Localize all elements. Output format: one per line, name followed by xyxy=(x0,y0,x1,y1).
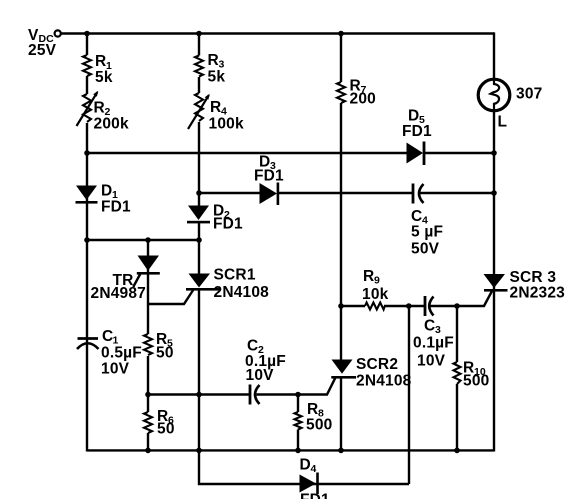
svg-text:500: 500 xyxy=(306,417,332,434)
svg-text:R: R xyxy=(95,53,106,70)
wire y240 link xyxy=(87,239,199,241)
svg-text:2N4108: 2N4108 xyxy=(214,284,270,301)
wire rail y193 left xyxy=(199,192,260,194)
resistor R3 xyxy=(195,56,203,77)
wire R10 branch top xyxy=(456,306,458,362)
wire R7 branch top xyxy=(340,34,342,83)
svg-text:10V: 10V xyxy=(246,367,275,384)
svg-text:100k: 100k xyxy=(209,116,244,133)
wire TR branch bottom xyxy=(147,433,149,450)
trigger diode TR 2N4987 xyxy=(138,256,160,271)
svg-text:FD1: FD1 xyxy=(213,216,243,233)
junction y394 x298 xyxy=(295,392,301,398)
svg-text:FD1: FD1 xyxy=(254,168,284,185)
svg-text:10V: 10V xyxy=(101,361,130,378)
wire TR cathode to SCR1 gate xyxy=(148,290,194,305)
capacitor C2 plates xyxy=(249,385,252,405)
wire left branch upper xyxy=(86,34,88,56)
svg-text:200k: 200k xyxy=(94,116,129,133)
wire left branch lower xyxy=(86,123,88,452)
capacitor C4 plates xyxy=(412,184,415,204)
wire TR branch lower xyxy=(147,356,149,412)
svg-text:R: R xyxy=(208,52,219,69)
wire top rail xyxy=(61,32,494,34)
terminal VDC xyxy=(55,30,61,36)
junction top rail x199 xyxy=(196,31,202,37)
junction y193 x494 xyxy=(491,190,497,196)
junction y306 x341 xyxy=(338,303,344,309)
wire R8 branch top xyxy=(297,395,299,413)
svg-text:D: D xyxy=(408,108,419,125)
wire R7 to SCR2 xyxy=(340,103,342,360)
svg-text:D: D xyxy=(101,183,112,200)
junction top rail x87 xyxy=(84,31,90,37)
svg-text:L: L xyxy=(498,114,508,131)
wire D2 to SCR1 xyxy=(198,222,200,274)
svg-text:C: C xyxy=(411,208,422,225)
svg-text:SCR 3: SCR 3 xyxy=(510,269,557,286)
resistor R1 xyxy=(83,55,91,76)
junction bottom x199 xyxy=(196,448,202,454)
rheostat R4 arrow xyxy=(188,95,209,129)
thyristor SCR1 xyxy=(189,274,211,288)
svg-text:2N2323: 2N2323 xyxy=(510,285,566,302)
svg-text:0.5µF: 0.5µF xyxy=(101,345,142,362)
junction y240 x199 xyxy=(196,237,202,243)
svg-text:9: 9 xyxy=(374,275,380,287)
wire rail y153 left xyxy=(87,152,407,154)
svg-text:50: 50 xyxy=(156,345,174,362)
thyristor SCR3 xyxy=(484,274,506,288)
junction top rail x341 xyxy=(338,31,344,37)
diode D3 xyxy=(260,183,278,204)
svg-text:R: R xyxy=(210,99,221,116)
junction y306 x457 xyxy=(454,303,460,309)
lamp L 307 xyxy=(478,79,510,111)
svg-text:5 µF: 5 µF xyxy=(411,224,443,241)
svg-text:FD1: FD1 xyxy=(402,123,432,140)
svg-text:5k: 5k xyxy=(208,69,226,86)
svg-text:R: R xyxy=(363,268,374,285)
svg-text:SCR1: SCR1 xyxy=(214,267,256,284)
wire right rail upper xyxy=(493,32,495,78)
junction bottom x148 xyxy=(145,448,151,454)
junction bottom x457 xyxy=(454,448,460,454)
wire R4 to D2 xyxy=(198,122,200,206)
capacitor C3 plates xyxy=(424,296,427,316)
svg-text:4: 4 xyxy=(311,463,317,475)
svg-text:500: 500 xyxy=(463,373,489,390)
svg-text:5k: 5k xyxy=(95,69,113,86)
wire TR branch xyxy=(147,240,149,334)
wire C2 right xyxy=(257,393,299,395)
svg-text:0.1µF: 0.1µF xyxy=(413,335,454,352)
svg-text:50: 50 xyxy=(157,421,175,438)
svg-text:50V: 50V xyxy=(411,241,440,258)
svg-text:10V: 10V xyxy=(417,353,446,370)
svg-text:D: D xyxy=(300,457,311,474)
diode D1 xyxy=(76,186,97,201)
wire R3-R4 link xyxy=(198,77,200,93)
wire y306 mid xyxy=(384,305,424,307)
wire rail y193 mid xyxy=(279,192,413,194)
wire R8 branch bottom xyxy=(297,430,299,451)
capacitor C1 plates xyxy=(78,337,99,340)
junction y394 x148 xyxy=(145,392,151,398)
wire R10 branch bottom xyxy=(456,384,458,450)
junction y306 x409 xyxy=(406,303,412,309)
junction bottom x341 xyxy=(338,448,344,454)
svg-text:25V: 25V xyxy=(28,42,57,59)
wire x409 drop xyxy=(408,306,410,484)
svg-text:200: 200 xyxy=(350,91,376,108)
svg-text:307: 307 xyxy=(516,86,542,103)
resistor R2 body xyxy=(83,94,91,122)
wire D4 loop xyxy=(199,452,409,485)
svg-text:2N4987: 2N4987 xyxy=(91,285,147,302)
wire SCR2 cathode down xyxy=(340,378,342,451)
junction bottom x298 xyxy=(295,448,301,454)
junction y193 x199 xyxy=(196,190,202,196)
svg-text:SCR2: SCR2 xyxy=(356,356,398,373)
wire left branch mid xyxy=(86,76,88,94)
svg-text:C: C xyxy=(424,318,435,335)
junction y153 x87 xyxy=(84,150,90,156)
diode D2 xyxy=(188,206,209,221)
resistor R10 xyxy=(454,362,461,384)
junction y394 x199 xyxy=(196,392,202,398)
svg-text:R: R xyxy=(94,100,105,117)
wire R8 junction to SCR2 gate xyxy=(298,378,336,395)
thyristor SCR2 xyxy=(332,360,353,374)
wire y306 right to SCR3 gate xyxy=(430,291,493,306)
svg-text:FD1: FD1 xyxy=(300,492,330,499)
diode D5 xyxy=(407,143,424,164)
svg-text:FD1: FD1 xyxy=(101,199,131,216)
svg-text:10k: 10k xyxy=(362,286,389,303)
wire bottom rail xyxy=(87,449,494,451)
resistor R4 body xyxy=(195,93,203,121)
wire C2 left xyxy=(148,393,250,395)
rheostat R2 arrow xyxy=(77,92,98,126)
svg-text:C: C xyxy=(247,338,258,355)
wire y306 left xyxy=(341,305,365,307)
svg-text:R: R xyxy=(307,401,318,418)
resistor R8 xyxy=(295,412,302,430)
resistor R9 xyxy=(365,303,385,310)
wire rail y153 right xyxy=(425,152,495,154)
wire right rail lower xyxy=(493,112,495,452)
junction y240 x87 xyxy=(84,237,90,243)
junction y240 x148 xyxy=(145,237,151,243)
resistor R6 xyxy=(144,412,152,433)
wire R3 branch top xyxy=(198,34,200,56)
svg-text:2N4108: 2N4108 xyxy=(356,373,412,390)
resistor R7 xyxy=(337,82,345,103)
resistor R5 xyxy=(144,334,152,355)
wire SCR1 cathode down xyxy=(198,290,200,452)
diode D4 xyxy=(300,475,317,493)
junction y153 x494 xyxy=(491,150,497,156)
wire rail y193 right xyxy=(419,192,494,194)
